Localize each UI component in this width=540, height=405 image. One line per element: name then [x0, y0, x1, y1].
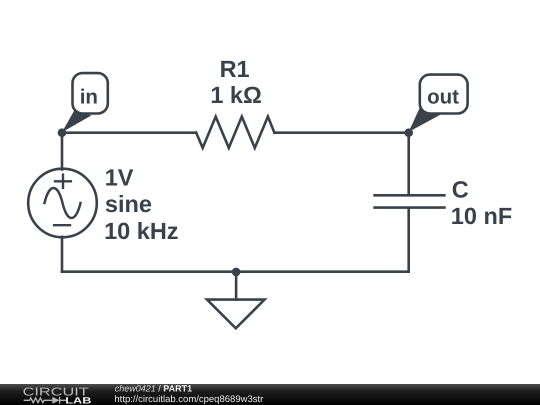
- svg-text:http://circuitlab.com/cpeq8689: http://circuitlab.com/cpeq8689w3str: [114, 394, 263, 405]
- svg-text:in: in: [80, 86, 98, 109]
- svg-text:1V: 1V: [105, 164, 134, 190]
- svg-text:out: out: [427, 86, 459, 109]
- svg-text:C: C: [452, 177, 469, 203]
- svg-text:10 nF: 10 nF: [451, 203, 512, 229]
- svg-text:chew0421 / PART1: chew0421 / PART1: [115, 384, 192, 394]
- svg-text:sine: sine: [105, 191, 152, 217]
- svg-text:1 kΩ: 1 kΩ: [210, 82, 262, 108]
- svg-text:R1: R1: [220, 56, 250, 82]
- svg-text:LAB: LAB: [65, 395, 92, 405]
- svg-text:10 kHz: 10 kHz: [104, 218, 178, 244]
